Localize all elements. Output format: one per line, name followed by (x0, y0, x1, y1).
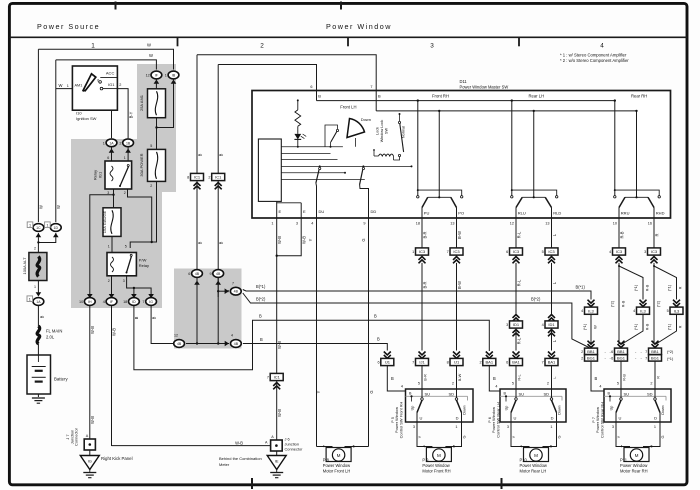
svg-text:30A POWER: 30A POWER (139, 153, 144, 176)
svg-text:Control SW Rear LH: Control SW Rear LH (495, 402, 500, 438)
svg-text:IG1: IG1 (98, 171, 103, 178)
svg-text:Down: Down (661, 405, 665, 414)
svg-text:6: 6 (97, 79, 99, 83)
svg-text:7: 7 (370, 85, 372, 89)
svg-text:ID1: ID1 (513, 322, 520, 327)
svg-text:4: 4 (599, 385, 601, 389)
svg-text:Window Lock: Window Lock (380, 120, 384, 143)
svg-text:6: 6 (611, 356, 613, 360)
svg-text:G: G (557, 435, 562, 438)
svg-text:G: G (361, 238, 366, 241)
svg-text:B: B (259, 314, 262, 319)
svg-text:1A: 1A (109, 141, 114, 145)
svg-text:16: 16 (648, 222, 652, 226)
svg-text:SD: SD (448, 391, 454, 396)
svg-text:5: 5 (667, 309, 669, 313)
svg-text:Down: Down (463, 405, 467, 414)
svg-text:IC1: IC1 (215, 175, 222, 180)
svg-text:SD: SD (543, 391, 549, 396)
svg-text:6: 6 (506, 361, 508, 365)
svg-text:(*1): (*1) (582, 323, 587, 330)
svg-text:Motor Rear LH: Motor Rear LH (520, 469, 547, 474)
svg-text:B: B (134, 316, 139, 319)
svg-text:1: 1 (46, 223, 48, 227)
svg-text:13: 13 (545, 222, 549, 226)
svg-text:2.0L: 2.0L (46, 335, 55, 340)
svg-text:1: 1 (29, 297, 31, 301)
svg-text:IG: IG (88, 458, 92, 463)
svg-text:IC3: IC3 (616, 249, 623, 254)
svg-text:SU: SU (624, 391, 630, 396)
svg-text:12: 12 (146, 74, 150, 78)
svg-text:(*1): (*1) (633, 323, 638, 330)
svg-text:B-R: B-R (422, 374, 427, 381)
svg-text:B: B (198, 153, 203, 156)
svg-text:IC3: IC3 (548, 249, 555, 254)
svg-text:IL3: IL3 (588, 308, 594, 313)
svg-text:SU: SU (425, 391, 431, 396)
svg-text:B: B (378, 94, 381, 99)
svg-text:B: B (493, 376, 496, 381)
svg-text:B-R: B-R (422, 281, 427, 288)
svg-text:Relay: Relay (93, 170, 98, 180)
svg-text:5: 5 (125, 244, 127, 248)
svg-text:1D: 1D (54, 226, 59, 230)
svg-text:1: 1 (550, 425, 552, 429)
svg-text:3: 3 (644, 250, 646, 254)
svg-text:W-B: W-B (90, 416, 95, 424)
svg-text:R: R (678, 286, 683, 289)
svg-text:Y: Y (616, 435, 621, 438)
svg-text:6: 6 (310, 85, 312, 89)
svg-text:18: 18 (123, 300, 127, 304)
svg-text:4B: 4B (234, 342, 239, 346)
svg-text:Power Source: Power Source (37, 22, 100, 31)
svg-text:2: 2 (108, 279, 110, 283)
svg-text:4: 4 (231, 334, 233, 338)
svg-text:1: 1 (455, 425, 457, 429)
svg-text:7: 7 (447, 250, 449, 254)
svg-text:6: 6 (506, 250, 508, 254)
svg-text:2: 2 (150, 184, 152, 188)
svg-text:W: W (149, 53, 153, 58)
svg-text:B: B (374, 314, 377, 319)
svg-text:G: G (660, 435, 665, 438)
svg-text:1A: 1A (36, 300, 41, 304)
svg-text:P 8: P 8 (323, 458, 330, 463)
svg-text:I10: I10 (76, 111, 82, 116)
svg-text:1C: 1C (36, 226, 41, 230)
svg-text:Relay: Relay (139, 263, 149, 268)
svg-text:IJ1: IJ1 (385, 360, 391, 365)
svg-text:G: G (369, 390, 374, 393)
svg-text:2: 2 (581, 356, 583, 360)
svg-text:P11: P11 (620, 458, 628, 463)
svg-text:R-B: R-B (645, 284, 650, 291)
svg-text:4: 4 (633, 309, 635, 313)
svg-text:6: 6 (107, 156, 109, 160)
svg-text:Connector: Connector (285, 447, 304, 452)
svg-text:Connector: Connector (74, 427, 79, 446)
svg-text:IF: IF (155, 74, 158, 78)
svg-text:5: 5 (353, 445, 355, 449)
svg-text:1: 1 (103, 141, 105, 145)
svg-text:IG1: IG1 (108, 82, 115, 87)
svg-text:7: 7 (645, 350, 647, 354)
svg-text:R: R (655, 376, 660, 379)
svg-text:R-L: R-L (516, 279, 521, 286)
svg-text:R-B: R-B (645, 323, 650, 330)
svg-text:1: 1 (654, 425, 656, 429)
svg-text:SU: SU (519, 391, 525, 396)
svg-text:4B: 4B (177, 342, 182, 346)
svg-text:4: 4 (609, 250, 611, 254)
svg-text:B(*1): B(*1) (576, 285, 586, 290)
svg-text:Power Window: Power Window (620, 463, 647, 468)
svg-text:P/W: P/W (139, 258, 147, 263)
svg-text:1: 1 (271, 222, 273, 226)
svg-text:Power Window: Power Window (422, 463, 449, 468)
svg-text:4: 4 (520, 445, 522, 449)
svg-text:4: 4 (423, 445, 425, 449)
svg-text:2: 2 (119, 83, 121, 87)
svg-text:R-B: R-B (621, 374, 626, 381)
svg-text:7: 7 (232, 282, 234, 286)
svg-text:4: 4 (620, 445, 622, 449)
svg-text:12: 12 (174, 334, 178, 338)
svg-text:R-B: R-B (619, 231, 624, 238)
svg-text:R-L: R-L (516, 337, 521, 344)
svg-text:ID1: ID1 (548, 322, 555, 327)
svg-text:Y: Y (511, 435, 516, 438)
svg-text:3: 3 (612, 425, 614, 429)
svg-text:4B: 4B (234, 290, 239, 294)
svg-text:8: 8 (447, 361, 449, 365)
svg-text:SW: SW (385, 128, 389, 135)
svg-text:3: 3 (430, 43, 434, 50)
svg-text:1: 1 (34, 285, 36, 289)
svg-text:2: 2 (34, 247, 36, 251)
svg-text:4: 4 (542, 323, 544, 327)
svg-text:W-B: W-B (302, 236, 307, 244)
svg-text:BG1: BG1 (617, 356, 626, 361)
svg-text:(*1): (*1) (633, 284, 638, 291)
svg-text:W-B: W-B (112, 328, 117, 336)
svg-text:B-R: B-R (422, 231, 427, 238)
svg-text:4: 4 (401, 385, 403, 389)
svg-text:M: M (437, 453, 441, 458)
svg-text:(*2): (*2) (610, 300, 615, 307)
svg-text:W: W (56, 205, 61, 209)
svg-text:U: U (619, 415, 622, 420)
svg-text:Motor Rear RH: Motor Rear RH (620, 469, 648, 474)
svg-text:1: 1 (29, 223, 31, 227)
svg-text:3: 3 (413, 425, 415, 429)
svg-text:IC3: IC3 (651, 249, 658, 254)
svg-text:Motor Front RH: Motor Front RH (422, 469, 450, 474)
svg-text:B: B (318, 94, 321, 99)
svg-text:P10: P10 (520, 458, 528, 463)
svg-text:12: 12 (510, 222, 514, 226)
svg-text:D: D (551, 415, 554, 420)
svg-text:B-W: B-W (457, 373, 462, 381)
svg-text:R-L: R-L (516, 231, 521, 238)
svg-text:1: 1 (67, 84, 69, 88)
svg-text:IL3: IL3 (640, 308, 646, 313)
svg-text:ACC: ACC (106, 71, 115, 76)
svg-text:Control SW Front RH: Control SW Front RH (398, 401, 403, 438)
svg-text:BA1: BA1 (512, 360, 520, 365)
svg-text:(*1): (*1) (667, 323, 672, 330)
svg-text:9: 9 (209, 272, 211, 276)
svg-text:Power Window: Power Window (326, 22, 392, 31)
svg-text:1: 1 (91, 43, 95, 50)
svg-text:M: M (337, 453, 341, 458)
svg-text:4: 4 (581, 309, 583, 313)
svg-text:Front LH: Front LH (340, 105, 356, 110)
svg-text:IE: IE (275, 458, 279, 463)
svg-text:5: 5 (617, 382, 619, 386)
svg-text:W: W (593, 325, 598, 329)
svg-text:10: 10 (79, 300, 83, 304)
svg-text:PO: PO (458, 211, 464, 216)
svg-text:7: 7 (227, 290, 229, 294)
svg-text:RLD: RLD (553, 211, 561, 216)
svg-text:D: D (654, 415, 657, 420)
svg-text:B-W: B-W (457, 281, 462, 289)
svg-text:BG1: BG1 (587, 356, 596, 361)
svg-text:5: 5 (453, 445, 455, 449)
svg-text:1B: 1B (126, 141, 131, 145)
svg-text:IF: IF (110, 300, 113, 304)
svg-text:Lock: Lock (376, 127, 380, 135)
svg-text:G: G (462, 435, 467, 438)
svg-text:4B: 4B (195, 272, 200, 276)
svg-text:IJ1: IJ1 (419, 360, 425, 365)
svg-text:5: 5 (651, 445, 653, 449)
svg-text:BB1: BB1 (617, 349, 625, 354)
svg-text:8: 8 (187, 176, 189, 180)
svg-text:B-W: B-W (457, 231, 462, 239)
svg-text:IC3: IC3 (513, 249, 520, 254)
svg-text:B-Y: B-Y (129, 111, 134, 118)
svg-text:B: B (391, 376, 394, 381)
svg-text:E: E (303, 209, 306, 214)
svg-text:1: 1 (124, 156, 126, 160)
svg-text:2: 2 (208, 176, 210, 180)
svg-text:Behind the Combination: Behind the Combination (219, 456, 262, 461)
svg-text:IL3: IL3 (674, 308, 680, 313)
svg-text:2: 2 (650, 382, 652, 386)
svg-text:4B: 4B (216, 272, 221, 276)
svg-text:IH: IH (88, 300, 92, 304)
svg-text:9: 9 (363, 222, 365, 226)
svg-text:W: W (147, 43, 151, 48)
svg-text:W-B: W-B (277, 409, 282, 417)
svg-text:P 9: P 9 (422, 458, 429, 463)
svg-text:Up: Up (411, 406, 415, 411)
svg-text:4: 4 (311, 222, 313, 226)
svg-text:Ignition SW: Ignition SW (76, 116, 97, 121)
svg-text:2: 2 (547, 382, 549, 386)
svg-text:2: 2 (260, 43, 264, 50)
svg-text:BB1: BB1 (587, 349, 595, 354)
svg-text:3: 3 (507, 425, 509, 429)
svg-text:B: B (260, 337, 263, 342)
svg-text:B(*1): B(*1) (256, 284, 266, 289)
svg-text:B: B (219, 153, 224, 156)
svg-text:3: 3 (123, 279, 125, 283)
svg-text:13: 13 (450, 222, 454, 226)
svg-text:IC3: IC3 (453, 249, 460, 254)
svg-text:Power Window: Power Window (520, 463, 547, 468)
svg-text:5: 5 (512, 382, 514, 386)
svg-text:Power Window: Power Window (323, 463, 350, 468)
svg-text:Motor Front LH: Motor Front LH (323, 469, 351, 474)
svg-text:DU: DU (319, 209, 325, 214)
svg-text:SD: SD (647, 391, 653, 396)
svg-text:Battery: Battery (54, 377, 68, 382)
svg-text:Front RH: Front RH (432, 94, 449, 99)
svg-text:Power Window Master SW: Power Window Master SW (460, 85, 509, 90)
svg-text:2: 2 (479, 361, 481, 365)
svg-text:7: 7 (645, 356, 647, 360)
svg-text:E: E (279, 209, 282, 214)
svg-text:R-B: R-B (621, 300, 626, 307)
svg-text:15A GAUGE: 15A GAUGE (102, 210, 107, 233)
svg-text:B(*2): B(*2) (531, 297, 541, 302)
svg-text:B(*2): B(*2) (256, 297, 266, 302)
svg-text:Y: Y (316, 390, 321, 393)
svg-text:3: 3 (506, 323, 508, 327)
svg-text:(*1): (*1) (667, 284, 672, 291)
svg-text:R: R (654, 233, 659, 236)
svg-text:Rear RH: Rear RH (631, 94, 647, 99)
svg-text:1: 1 (165, 74, 167, 78)
svg-text:5: 5 (550, 445, 552, 449)
svg-text:W: W (59, 83, 63, 88)
svg-text:5: 5 (418, 382, 420, 386)
svg-text:18: 18 (416, 222, 420, 226)
svg-text:4: 4 (103, 300, 105, 304)
svg-text:IC1: IC1 (274, 375, 281, 380)
svg-text:4: 4 (600, 43, 604, 50)
svg-text:6: 6 (188, 272, 190, 276)
svg-text:5: 5 (150, 144, 152, 148)
svg-text:RLU: RLU (518, 211, 526, 216)
svg-text:25A AM1: 25A AM1 (139, 94, 144, 111)
svg-text:R-L: R-L (516, 374, 521, 381)
svg-text:D: D (456, 415, 459, 420)
svg-text:2: 2 (452, 382, 454, 386)
svg-text:2: 2 (119, 141, 121, 145)
svg-text:B: B (377, 337, 380, 342)
svg-text:10: 10 (613, 222, 617, 226)
svg-text:PU: PU (424, 211, 430, 216)
svg-text:(*2): (*2) (656, 300, 661, 307)
svg-text:4: 4 (495, 385, 497, 389)
svg-text:B: B (151, 316, 156, 319)
svg-text:B: B (595, 376, 598, 381)
svg-text:7: 7 (142, 300, 144, 304)
svg-text:7: 7 (542, 361, 544, 365)
svg-text:B: B (40, 315, 45, 318)
svg-text:4: 4 (322, 445, 324, 449)
svg-text:D11: D11 (460, 79, 468, 84)
svg-text:W-B: W-B (90, 326, 95, 334)
svg-text:(*2): (*2) (667, 349, 674, 354)
svg-text:Meter: Meter (219, 462, 230, 467)
svg-text:3: 3 (296, 222, 298, 226)
svg-text:Down: Down (558, 405, 562, 414)
svg-text:6: 6 (611, 350, 613, 354)
svg-text:ID: ID (132, 300, 136, 304)
svg-text:1: 1 (412, 250, 414, 254)
svg-text:Down: Down (361, 117, 371, 122)
svg-text:7: 7 (412, 361, 414, 365)
svg-text:2: 2 (581, 350, 583, 354)
svg-text:BA1: BA1 (548, 360, 556, 365)
svg-text:5: 5 (542, 250, 544, 254)
svg-text:Y: Y (308, 238, 313, 241)
svg-text:BG1: BG1 (651, 356, 660, 361)
svg-text:RHD: RHD (656, 211, 665, 216)
svg-text:100A ALT: 100A ALT (22, 257, 27, 275)
svg-text:Right Kick Panel: Right Kick Panel (101, 456, 133, 461)
svg-text:* 1 : w/ Stereo Component Ampl: * 1 : w/ Stereo Component Amplifier (560, 53, 627, 58)
svg-text:W-B: W-B (235, 440, 243, 445)
svg-text:U: U (420, 415, 423, 420)
svg-text:B: B (198, 241, 203, 244)
svg-text:FL MAIN: FL MAIN (46, 329, 62, 334)
svg-text:(*1): (*1) (667, 356, 674, 361)
svg-text:DD: DD (371, 209, 377, 214)
svg-text:* 2 : w/o Stereo Component Amp: * 2 : w/o Stereo Component Amplifier (560, 58, 629, 63)
svg-text:IC3: IC3 (419, 249, 426, 254)
svg-text:Control SW Rear RH: Control SW Rear RH (599, 402, 604, 438)
svg-text:IG: IG (149, 300, 153, 304)
svg-text:BB1: BB1 (651, 349, 659, 354)
svg-text:Rear LH: Rear LH (529, 94, 545, 99)
svg-text:M: M (534, 453, 538, 458)
svg-text:AM1: AM1 (75, 84, 83, 88)
svg-text:Up: Up (610, 406, 614, 411)
svg-text:W: W (39, 205, 44, 209)
svg-text:1: 1 (108, 244, 110, 248)
svg-text:IC1: IC1 (194, 175, 201, 180)
svg-text:M: M (635, 453, 639, 458)
svg-text:B: B (219, 241, 224, 244)
svg-text:2: 2 (124, 191, 126, 195)
svg-text:W-B: W-B (277, 341, 282, 349)
svg-text:Up: Up (505, 406, 509, 411)
svg-text:6: 6 (377, 361, 379, 365)
svg-text:7: 7 (267, 376, 269, 380)
svg-text:Normal: Normal (402, 126, 406, 138)
svg-text:W-B: W-B (277, 236, 282, 244)
svg-text:BA1: BA1 (486, 360, 494, 365)
svg-text:RRU: RRU (621, 211, 630, 216)
svg-text:U: U (514, 415, 517, 420)
svg-text:Y: Y (417, 435, 422, 438)
svg-text:R: R (678, 325, 683, 328)
svg-text:IJ1: IJ1 (454, 360, 460, 365)
